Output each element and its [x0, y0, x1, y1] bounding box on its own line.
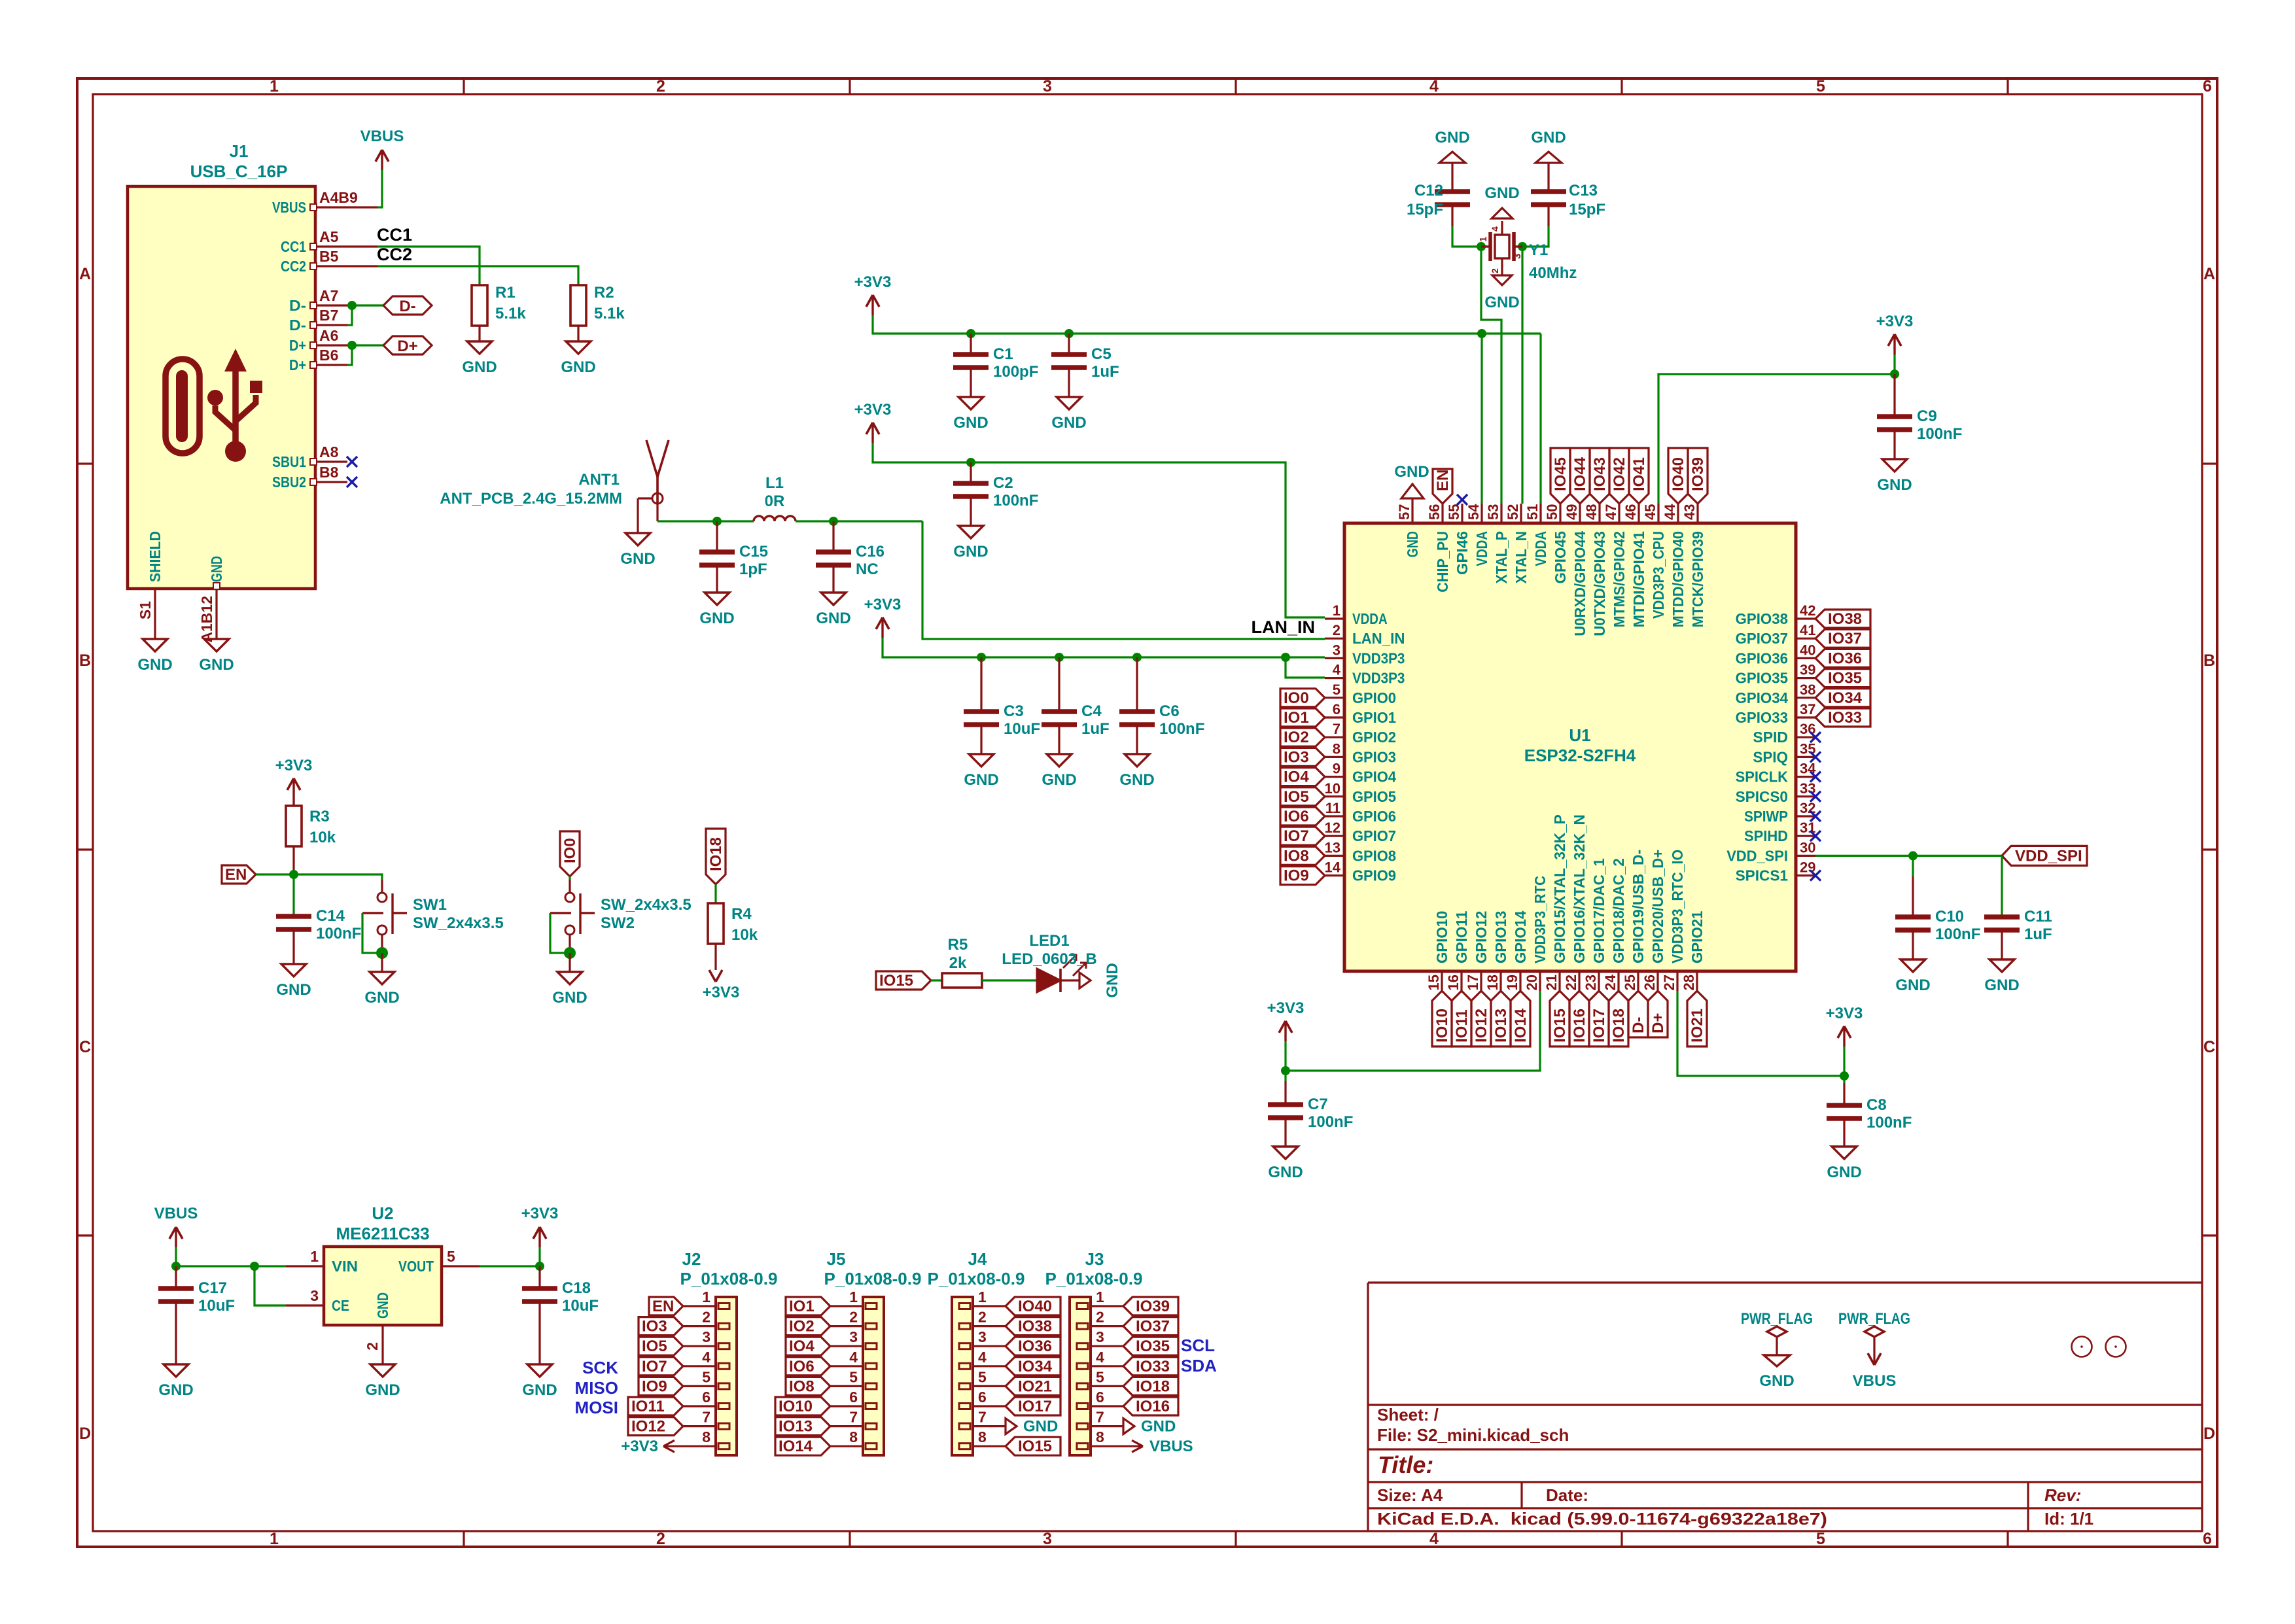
J4 pin 2: [973, 1325, 1006, 1327]
svg-text:NC: NC: [856, 561, 879, 578]
svg-text:LED1: LED1: [1029, 932, 1069, 950]
junction D-: [347, 301, 357, 310]
hierarchical label IO40 at J4 pin 1: [1006, 1297, 1060, 1315]
svg-text:A: A: [79, 265, 91, 283]
J4 pin 1: [973, 1305, 1006, 1307]
wire EN node: [256, 874, 382, 880]
J1 pin B6 D+: [315, 364, 347, 366]
hierarchical label IO16: [1569, 991, 1589, 1046]
svg-text:GPIO35: GPIO35: [1736, 670, 1789, 687]
svg-text:IO17: IO17: [1590, 1009, 1608, 1043]
J5 pin 8: [830, 1445, 863, 1447]
hierarchical label IO36: [1815, 649, 1870, 667]
svg-text:27: 27: [1661, 975, 1677, 990]
J1 pin A1B12 GND: [215, 589, 217, 639]
svg-text:6: 6: [1096, 1389, 1104, 1406]
hierarchical label IO14 at J5 pin 8: [775, 1437, 830, 1455]
svg-text:IO33: IO33: [1828, 709, 1862, 727]
svg-text:ESP32-S2FH4: ESP32-S2FH4: [1524, 746, 1636, 765]
svg-text:IO10: IO10: [1433, 1009, 1451, 1043]
hierarchical label IO9 at J2 pin 5: [639, 1377, 683, 1395]
svg-text:IO40: IO40: [1670, 457, 1687, 491]
svg-text:J1: J1: [230, 141, 249, 161]
J5 pin 2: [830, 1325, 863, 1327]
svg-text:GPIO10: GPIO10: [1433, 911, 1450, 963]
svg-text:GND: GND: [1042, 771, 1076, 789]
svg-text:13: 13: [1325, 839, 1340, 855]
svg-text:39: 39: [1800, 662, 1815, 678]
svg-text:P_01x08-0.9: P_01x08-0.9: [680, 1269, 778, 1288]
svg-text:IO38: IO38: [1828, 610, 1862, 628]
svg-text:GPIO6: GPIO6: [1352, 808, 1396, 825]
svg-text:+3V3: +3V3: [1826, 1005, 1863, 1022]
wire SW1 second contact to ground: [362, 913, 382, 953]
svg-text:21: 21: [1543, 975, 1560, 990]
svg-text:IO16: IO16: [1571, 1009, 1588, 1043]
capacitor C18: [538, 1266, 540, 1288]
svg-text:IO2: IO2: [789, 1318, 815, 1336]
U1 pin 18 GPIO13: [1499, 971, 1501, 991]
hierarchical label IO18: [1609, 991, 1628, 1046]
svg-text:J3: J3: [1085, 1249, 1104, 1269]
junction C16: [829, 517, 838, 526]
svg-text:3: 3: [1512, 254, 1523, 259]
svg-text:GPIO8: GPIO8: [1352, 847, 1396, 864]
svg-text:EN: EN: [225, 866, 247, 884]
junction pin4 branch: [1281, 653, 1290, 662]
svg-text:GND: GND: [208, 556, 225, 582]
U1 pin 40 GPIO36: [1796, 657, 1815, 659]
hierarchical label IO39 at J3 pin 1: [1123, 1297, 1178, 1315]
svg-text:57: 57: [1396, 504, 1412, 520]
svg-text:5: 5: [447, 1248, 455, 1265]
svg-text:MTDI/GPIO41: MTDI/GPIO41: [1630, 531, 1647, 628]
hierarchical label IO6 at J5 pin 4: [786, 1357, 830, 1375]
svg-text:B7: B7: [319, 307, 338, 324]
svg-text:IO44: IO44: [1571, 457, 1589, 491]
svg-text:IO1: IO1: [1284, 709, 1309, 727]
ground at C18: [527, 1364, 552, 1377]
junction C2: [966, 458, 975, 467]
svg-text:100nF: 100nF: [1866, 1114, 1912, 1132]
svg-text:SPICS1: SPICS1: [1736, 867, 1789, 884]
svg-text:D: D: [2203, 1425, 2215, 1443]
svg-text:IO18: IO18: [707, 837, 725, 871]
svg-text:VDD3P3_RTC: VDD3P3_RTC: [1532, 876, 1549, 963]
svg-text:SCL: SCL: [1181, 1336, 1215, 1355]
junction C18: [535, 1262, 544, 1271]
svg-text:CC1: CC1: [377, 225, 412, 245]
J1 pin B7 D-: [315, 324, 347, 326]
svg-text:C: C: [79, 1038, 91, 1056]
svg-text:C16: C16: [856, 543, 885, 561]
svg-text:GPIO0: GPIO0: [1352, 689, 1396, 706]
svg-text:51: 51: [1524, 504, 1541, 520]
antenna feed pin: [656, 504, 658, 521]
svg-text:VDDA: VDDA: [1532, 531, 1549, 566]
svg-text:22: 22: [1563, 975, 1579, 990]
svg-text:GPIO45: GPIO45: [1552, 531, 1569, 584]
hierarchical label IO45: [1550, 448, 1570, 504]
svg-text:44: 44: [1662, 504, 1678, 520]
svg-text:C18: C18: [562, 1279, 591, 1297]
svg-text:1: 1: [310, 1248, 319, 1265]
svg-text:15pF: 15pF: [1569, 201, 1605, 218]
wire branch to U1 pin 4: [1286, 657, 1325, 678]
J4 pin 8: [973, 1445, 1006, 1447]
svg-text:J5: J5: [827, 1249, 846, 1269]
wire R2 to ground: [577, 326, 579, 341]
hierarchical label IO35 at J3 pin 3: [1123, 1337, 1178, 1355]
svg-text:Y1: Y1: [1529, 241, 1548, 259]
svg-text:P_01x08-0.9: P_01x08-0.9: [824, 1269, 922, 1288]
wire D+ pins tie: [347, 344, 383, 346]
wire R4 to +3V3: [714, 944, 716, 970]
power +3V3 at R3: [292, 778, 294, 799]
frame column ticks: [463, 78, 464, 94]
U1 pin 46 MTDI/GPIO41: [1638, 504, 1639, 523]
svg-text:GPIO36: GPIO36: [1736, 649, 1788, 666]
ground at J1 gnd pin: [204, 639, 229, 651]
svg-text:VDDA: VDDA: [1352, 610, 1388, 627]
capacitor C14: [292, 874, 294, 916]
svg-text:5: 5: [1333, 682, 1340, 698]
U1 pin 23 GPIO17/DAC_1: [1598, 971, 1600, 991]
U1 pin 9 GPIO4: [1325, 776, 1344, 778]
ic U1 ESP32-S2FH4 body: [1344, 523, 1796, 971]
svg-text:GPIO13: GPIO13: [1492, 911, 1509, 963]
svg-text:10uF: 10uF: [562, 1297, 599, 1315]
J1 pin A8 SBU1: [315, 460, 347, 462]
ground at J4 pin 7: [1006, 1419, 1017, 1434]
power +3V3 at C8: [1843, 1026, 1845, 1046]
power +3V3 rail 1 symbol: [871, 295, 873, 315]
J1 pin A5 CC1: [315, 245, 377, 247]
U1 pin 50 GPIO45: [1559, 504, 1561, 523]
svg-text:5: 5: [978, 1368, 987, 1385]
svg-text:P_01x08-0.9: P_01x08-0.9: [928, 1269, 1025, 1288]
ground at C14: [281, 964, 306, 976]
svg-text:18: 18: [1484, 975, 1501, 990]
svg-text:52: 52: [1505, 504, 1521, 520]
ground at C16: [821, 593, 846, 605]
svg-text:D+: D+: [1649, 1013, 1667, 1033]
hierarchical label IO33 at J3 pin 4: [1123, 1357, 1178, 1375]
power +3V3 at C9: [1893, 334, 1895, 354]
svg-text:GND: GND: [462, 358, 497, 376]
J5 pin 1: [830, 1305, 863, 1307]
svg-text:Date:: Date:: [1546, 1485, 1588, 1505]
J3 pin 4: [1091, 1365, 1123, 1367]
svg-text:IO6: IO6: [789, 1358, 815, 1375]
svg-text:IO43: IO43: [1591, 457, 1609, 491]
regulator U2 ME6211C33 body: [324, 1247, 442, 1325]
junction crystal left: [1477, 242, 1486, 251]
wire U2 VOUT to +3V3: [480, 1265, 540, 1267]
svg-text:3: 3: [1333, 642, 1340, 658]
hierarchical label IO4: [1280, 768, 1325, 786]
U1 pin 12 GPIO7: [1325, 835, 1344, 837]
hierarchical label IO9: [1280, 867, 1325, 885]
svg-text:8: 8: [978, 1428, 987, 1445]
svg-text:GPIO2: GPIO2: [1352, 729, 1396, 746]
svg-text:1: 1: [702, 1288, 710, 1305]
ground at C9: [1882, 459, 1907, 472]
svg-text:IO0: IO0: [561, 838, 579, 863]
svg-text:41: 41: [1800, 622, 1815, 638]
U1 pin 49 U0RXD/GPIO44: [1579, 504, 1581, 523]
hierarchical label IO5 at J2 pin 3: [639, 1337, 683, 1355]
hierarchical label IO1: [1280, 708, 1325, 727]
svg-text:LAN_IN: LAN_IN: [1352, 630, 1405, 647]
svg-text:4: 4: [1096, 1349, 1104, 1366]
J5 pin 6: [830, 1405, 863, 1407]
wire VBUS to U2 VIN: [175, 1247, 177, 1266]
ground at C11: [1989, 959, 2014, 972]
hierarchical label IO42: [1609, 448, 1629, 504]
svg-text:1: 1: [1333, 602, 1340, 619]
capacitor C4: [1058, 657, 1060, 712]
svg-text:D+: D+: [397, 337, 417, 355]
hierarchical label IO3: [1280, 748, 1325, 766]
svg-text:A4B9: A4B9: [319, 189, 358, 206]
svg-text:R2: R2: [594, 284, 614, 302]
svg-text:1: 1: [270, 77, 279, 95]
svg-text:6: 6: [2203, 1530, 2212, 1548]
svg-text:IO3: IO3: [1284, 748, 1309, 766]
svg-text:GND: GND: [816, 610, 850, 627]
hierarchical label IO0 at SW2: [560, 831, 580, 876]
svg-text:5.1k: 5.1k: [594, 305, 625, 322]
capacitor C1: [970, 334, 972, 354]
U1 pin 26 GPIO20/USB_D+: [1656, 971, 1658, 991]
svg-text:L1: L1: [765, 474, 784, 492]
svg-text:C3: C3: [1004, 702, 1024, 720]
svg-text:GND: GND: [552, 989, 587, 1007]
svg-text:25: 25: [1622, 975, 1638, 990]
svg-text:GND: GND: [364, 989, 399, 1007]
svg-text:B5: B5: [319, 248, 339, 265]
J2 pin 4: [683, 1365, 716, 1367]
svg-text:5.1k: 5.1k: [495, 305, 526, 322]
U2 pin 3 CE: [286, 1304, 324, 1306]
svg-text:7: 7: [1096, 1409, 1104, 1426]
hierarchical label EN at J2 pin 1: [649, 1297, 683, 1315]
svg-text:3: 3: [978, 1328, 987, 1345]
svg-text:SPIQ: SPIQ: [1753, 748, 1788, 765]
svg-text:IO34: IO34: [1828, 689, 1863, 707]
svg-text:D: D: [79, 1425, 91, 1443]
hierarchical label IO11: [1452, 991, 1471, 1046]
no-connect at SBU1: [347, 457, 357, 467]
wire +3V3 rail 1: [873, 315, 1541, 334]
title block outline: [1368, 1281, 2202, 1283]
svg-text:GND: GND: [1531, 129, 1566, 147]
frame row ticks: [77, 462, 93, 464]
svg-text:A1B12: A1B12: [198, 596, 215, 643]
svg-text:20: 20: [1524, 975, 1540, 990]
svg-text:EN: EN: [652, 1298, 674, 1315]
hierarchical label IO21 at J4 pin 5: [1006, 1377, 1060, 1395]
wire L1 to LAN_IN: [796, 520, 922, 522]
svg-text:10uF: 10uF: [1004, 720, 1040, 738]
svg-text:GPIO4: GPIO4: [1352, 769, 1396, 786]
J4 pin 7: [973, 1425, 1006, 1427]
svg-text:KiCad E.D.A. kicad (5.99.0-11: KiCad E.D.A. kicad (5.99.0-11674-g69322a…: [1377, 1509, 1827, 1529]
svg-text:PWR_FLAG: PWR_FLAG: [1838, 1310, 1910, 1328]
svg-text:IO9: IO9: [1284, 867, 1309, 885]
svg-text:C4: C4: [1081, 702, 1102, 720]
J1 pin A6 D+: [315, 344, 347, 346]
svg-text:IO21: IO21: [1689, 1009, 1706, 1043]
svg-text:GPIO12: GPIO12: [1473, 911, 1490, 963]
svg-text:CE: CE: [332, 1297, 349, 1314]
U1 pin 17 GPIO12: [1480, 971, 1482, 991]
svg-text:GND: GND: [522, 1381, 557, 1399]
svg-text:17: 17: [1465, 975, 1481, 990]
ground at SW1: [381, 953, 383, 972]
svg-text:C7: C7: [1308, 1096, 1328, 1113]
hierarchical label IO7: [1280, 827, 1325, 845]
junction C1: [966, 329, 975, 338]
svg-text:GND: GND: [1827, 1164, 1861, 1181]
svg-text:CC2: CC2: [377, 245, 412, 264]
antenna ANT1: [656, 477, 659, 504]
svg-text:28: 28: [1681, 975, 1697, 990]
svg-text:+3V3: +3V3: [275, 757, 313, 774]
ground at U2: [370, 1364, 395, 1377]
wire VDDA pin 51 drop: [1539, 334, 1541, 504]
power VBUS at PWR_FLAG: [1873, 1355, 1875, 1365]
J3 pin 2: [1091, 1325, 1123, 1327]
svg-text:VBUS: VBUS: [154, 1205, 198, 1222]
junction C5: [1064, 329, 1074, 338]
svg-text:2: 2: [656, 1530, 665, 1548]
svg-text:GPIO34: GPIO34: [1736, 689, 1789, 706]
svg-text:IO0: IO0: [1284, 689, 1309, 707]
ground right of LED1: [1079, 973, 1091, 988]
svg-text:SPICS0: SPICS0: [1736, 788, 1788, 805]
svg-text:MTMS/GPIO42: MTMS/GPIO42: [1611, 531, 1628, 627]
hierarchical label IO15 at J4 pin 8: [1006, 1437, 1060, 1455]
svg-text:40: 40: [1800, 642, 1815, 658]
wire IO15 to R5: [931, 979, 942, 981]
svg-text:6: 6: [978, 1389, 987, 1406]
wire C12 to crystal: [1452, 226, 1481, 247]
J1 pin S1 SHIELD: [154, 589, 156, 639]
U1 pin 16 GPIO11: [1460, 971, 1462, 991]
svg-text:GND: GND: [1268, 1164, 1303, 1181]
svg-text:10k: 10k: [309, 829, 336, 846]
svg-text:GPIO1: GPIO1: [1352, 709, 1396, 726]
svg-text:3: 3: [310, 1287, 319, 1304]
U1 pin 54 VDDA: [1480, 504, 1482, 523]
hierarchical label EN: [222, 865, 256, 884]
svg-text:IO45: IO45: [1552, 457, 1569, 491]
svg-text:7: 7: [978, 1409, 987, 1426]
hierarchical label IO17: [1589, 991, 1609, 1046]
svg-text:CHIP_PU: CHIP_PU: [1434, 531, 1451, 593]
svg-text:CC1: CC1: [281, 238, 306, 255]
svg-text:IO21: IO21: [1018, 1377, 1052, 1395]
svg-text:GPIO15/XTAL_32K_P: GPIO15/XTAL_32K_P: [1551, 814, 1568, 963]
svg-text:4: 4: [702, 1349, 710, 1366]
svg-text:IO14: IO14: [1512, 1008, 1530, 1043]
U1 pin 33 SPICS0: [1796, 795, 1815, 797]
svg-text:4: 4: [978, 1349, 987, 1366]
connector J1 USB_C_16P body: [128, 186, 315, 589]
svg-text:15pF: 15pF: [1407, 201, 1443, 218]
svg-text:56: 56: [1426, 504, 1443, 520]
hierarchical label IO12 at J2 pin 7: [628, 1417, 683, 1436]
svg-text:SHIELD: SHIELD: [147, 531, 164, 582]
svg-text:2: 2: [702, 1309, 710, 1326]
svg-text:C5: C5: [1091, 345, 1112, 363]
resistor R3: [286, 806, 302, 846]
svg-text:A5: A5: [319, 228, 339, 245]
svg-text:100nF: 100nF: [1159, 720, 1204, 738]
svg-text:MTCK/GPIO39: MTCK/GPIO39: [1689, 531, 1706, 627]
U1 pin 41 GPIO37: [1796, 638, 1815, 640]
ground at J3 pin 7: [1123, 1419, 1134, 1434]
capacitor C7: [1284, 1071, 1286, 1081]
hierarchical label IO12: [1471, 991, 1491, 1046]
svg-text:GND: GND: [1484, 294, 1519, 311]
svg-text:GND: GND: [276, 981, 311, 999]
svg-text:100nF: 100nF: [316, 925, 361, 942]
U1 pin 48 U0TXD/GPIO43: [1598, 504, 1600, 523]
svg-text:GPIO33: GPIO33: [1736, 709, 1788, 726]
svg-text:VDD_SPI: VDD_SPI: [2015, 847, 2082, 865]
ground at C8: [1832, 1147, 1857, 1159]
hierarchical label IO37 at J3 pin 2: [1123, 1317, 1178, 1336]
capacitor C15: [716, 521, 718, 552]
power +3V3 below R4: [709, 970, 716, 982]
svg-text:MTDD/GPIO40: MTDD/GPIO40: [1670, 531, 1687, 627]
svg-text:1: 1: [849, 1288, 858, 1305]
svg-text:GND: GND: [1119, 771, 1154, 789]
J3 pin 6: [1091, 1405, 1123, 1407]
svg-text:IO11: IO11: [1453, 1009, 1471, 1043]
svg-text:IO15: IO15: [1551, 1009, 1569, 1043]
J3 pin 5: [1091, 1385, 1123, 1387]
svg-text:SW_2x4x3.5: SW_2x4x3.5: [413, 914, 504, 932]
J2 pin 8: [683, 1445, 716, 1447]
ground at ANT1: [625, 533, 650, 545]
U2 pin 1 VIN: [286, 1265, 324, 1267]
svg-text:IO40: IO40: [1018, 1298, 1052, 1315]
hierarchical label IO34: [1815, 689, 1870, 707]
junction C8: [1840, 1071, 1849, 1080]
svg-text:7: 7: [702, 1409, 710, 1426]
svg-text:26: 26: [1641, 975, 1658, 990]
hierarchical label IO0: [1280, 689, 1325, 707]
svg-text:+3V3: +3V3: [521, 1205, 559, 1222]
svg-text:LAN_IN: LAN_IN: [1251, 617, 1315, 637]
global label D+: [383, 336, 432, 354]
svg-text:IO9: IO9: [642, 1377, 667, 1395]
svg-text:XTAL_N: XTAL_N: [1513, 531, 1530, 583]
power +3V3 rail 3 symbol: [881, 617, 883, 638]
svg-text:15: 15: [1426, 975, 1442, 990]
svg-text:4: 4: [1429, 77, 1439, 95]
svg-text:GND: GND: [199, 656, 234, 674]
svg-text:1: 1: [270, 1530, 279, 1548]
svg-text:SCK: SCK: [582, 1358, 618, 1377]
svg-text:GPI46: GPI46: [1454, 531, 1471, 575]
U1 pin 43 MTCK/GPIO39: [1696, 504, 1698, 523]
svg-text:IO35: IO35: [1136, 1338, 1170, 1355]
